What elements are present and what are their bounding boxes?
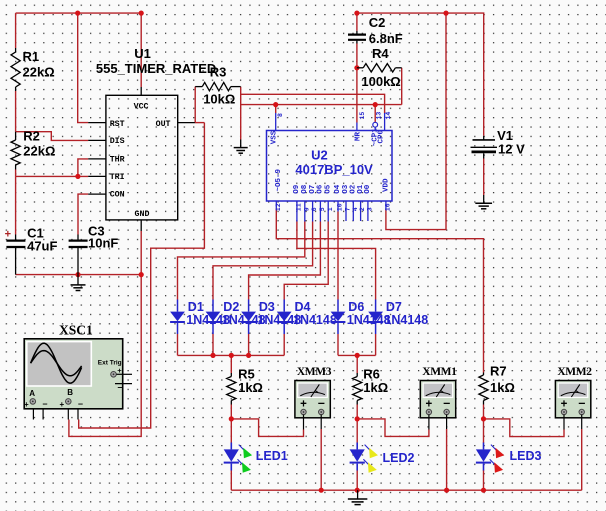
wire XMM3 - drop: [320, 429, 322, 490]
svg-text:555_TIMER_RATED: 555_TIMER_RATED: [96, 61, 216, 76]
svg-text:THR: THR: [110, 156, 125, 165]
wire XMM3 + link: [231, 419, 303, 437]
wire VCC drop: [140, 13, 142, 87]
svg-text:MR: MR: [354, 131, 362, 141]
resistor R4: [357, 64, 402, 72]
node C3-ground junction: [75, 272, 80, 277]
svg-text:3: 3: [367, 207, 374, 211]
svg-text:O4: O4: [334, 184, 342, 194]
wire LED1 to bottom bus: [230, 470, 232, 490]
svg-text:13: 13: [376, 112, 383, 120]
svg-text:O9: O9: [293, 184, 301, 194]
wire R4 right lead down: [401, 68, 403, 105]
svg-text:D2: D2: [223, 300, 239, 314]
svg-text:1kΩ: 1kΩ: [238, 380, 263, 395]
wire DIS jog: [16, 132, 89, 141]
oscilloscope XSC1: [24, 322, 132, 419]
LED LED1: [224, 443, 252, 473]
multimeter XMM1: [420, 366, 457, 418]
wire R7 to LED3: [483, 405, 485, 444]
svg-text:O0: O0: [364, 184, 372, 194]
svg-text:RST: RST: [110, 120, 125, 129]
svg-text:O6: O6: [317, 184, 325, 194]
svg-text:VCC: VCC: [134, 103, 149, 112]
svg-text:XSC1: XSC1: [59, 322, 93, 337]
svg-text:+: +: [5, 229, 11, 241]
svg-text:GND: GND: [135, 210, 150, 219]
wire R5 column: [230, 355, 232, 373]
node LED3 bus junction: [481, 488, 486, 493]
wire OUT node: [195, 122, 205, 124]
resistor R5: [227, 373, 236, 405]
svg-text:11: 11: [296, 203, 303, 211]
svg-text:~O5-9: ~O5-9: [275, 168, 283, 191]
wire top-left bus: [16, 12, 142, 14]
svg-text:22kΩ: 22kΩ: [23, 64, 55, 79]
svg-text:XMM2: XMM2: [557, 366, 592, 378]
op-amp U1 555 timer: [88, 87, 195, 231]
svg-text:1kΩ: 1kΩ: [363, 380, 388, 395]
ground bottom bus: [348, 490, 368, 504]
capacitor C1: [6, 235, 25, 275]
node THR-TRI junction: [75, 174, 80, 179]
wire R3 to CP0: [241, 94, 385, 113]
wire ground bus under 555: [16, 274, 142, 276]
wire O5 to D4: [284, 222, 328, 300]
node C2 top junction: [354, 11, 359, 16]
wire R3 right node column: [240, 87, 242, 140]
svg-text:–: –: [43, 399, 48, 409]
svg-text:2: 2: [359, 207, 366, 211]
svg-text:10: 10: [337, 203, 344, 211]
resistor R3: [195, 82, 241, 90]
svg-text:D1: D1: [188, 300, 204, 314]
node GND-bus junction: [139, 272, 144, 277]
wire 555 GND drop: [140, 231, 142, 275]
LED LED2: [350, 443, 378, 473]
svg-text:R4: R4: [372, 46, 389, 61]
diode D4: [277, 300, 292, 335]
svg-text:22kΩ: 22kΩ: [23, 144, 55, 159]
node R4-C2 junction: [354, 65, 359, 70]
svg-text:OUT: OUT: [156, 120, 171, 129]
svg-text:–: –: [443, 396, 450, 410]
svg-text:47uF: 47uF: [27, 238, 57, 253]
LED LED3: [476, 443, 504, 473]
svg-text:U1: U1: [134, 46, 151, 61]
svg-text:O8: O8: [301, 184, 309, 194]
wire C1 top column: [15, 176, 17, 234]
capacitor C2: [348, 31, 366, 44]
svg-text:8: 8: [277, 113, 284, 117]
svg-text:12: 12: [275, 203, 282, 211]
node R5-LED1 junction: [229, 416, 234, 421]
diode D2: [206, 300, 221, 335]
diode D1: [170, 300, 185, 335]
svg-text:+: +: [117, 366, 122, 375]
svg-text:–: –: [578, 396, 585, 410]
node D3 cathode junction: [246, 353, 251, 358]
node R5 top junction: [229, 353, 234, 358]
svg-text:LED1: LED1: [256, 449, 288, 463]
resistor R1: [11, 48, 20, 91]
svg-text:7: 7: [345, 207, 352, 211]
svg-text:CP0: CP0: [377, 129, 385, 143]
wire scope B+ to ground bus: [69, 275, 141, 437]
wire V1 to ground: [483, 159, 485, 196]
wire LED3 to bottom bus: [483, 470, 485, 490]
wire CP1 stub top: [374, 105, 376, 123]
svg-text:O7: O7: [309, 185, 317, 194]
svg-text:14: 14: [385, 112, 392, 120]
svg-text:1N4148: 1N4148: [293, 313, 337, 327]
wire CON to C3: [78, 194, 88, 234]
svg-text:+: +: [426, 398, 433, 410]
svg-text:D4: D4: [295, 300, 311, 314]
wire R2 bottom to TRI: [15, 170, 17, 177]
svg-text:+: +: [300, 398, 307, 410]
svg-text:R2: R2: [23, 128, 40, 143]
svg-text:C2: C2: [369, 15, 386, 30]
svg-text:15: 15: [359, 112, 366, 120]
ground under C3: [71, 275, 86, 291]
wire CO to R7: [276, 209, 483, 373]
wire R1 bottom to DIS-jog corner: [15, 91, 17, 132]
svg-text:A: A: [29, 389, 35, 398]
svg-text:R7: R7: [490, 363, 507, 378]
svg-text:CON: CON: [110, 191, 125, 200]
wire XMM1 - drop: [446, 429, 448, 490]
wire diode cathode bus right: [338, 354, 376, 356]
svg-text:B: B: [67, 388, 73, 397]
svg-text:+: +: [24, 400, 29, 409]
svg-text:VDD: VDD: [382, 178, 390, 192]
wire OUT to scope B-: [79, 123, 205, 428]
svg-text:6: 6: [311, 207, 318, 211]
svg-text:O5: O5: [324, 184, 332, 194]
node R6-LED2 junction: [355, 416, 360, 421]
svg-text:U2: U2: [311, 148, 328, 163]
diode D7: [368, 300, 383, 335]
wire O4 to D6: [337, 212, 339, 300]
svg-text:100kΩ: 100kΩ: [361, 74, 400, 89]
svg-text:DIS: DIS: [110, 137, 125, 146]
wire XMM2 + link: [484, 419, 565, 437]
diode D6: [331, 300, 346, 335]
svg-text:TRI: TRI: [110, 173, 125, 182]
wire O8 to D1: [178, 222, 305, 300]
wire XMM1 + link: [357, 419, 429, 437]
svg-text:R1: R1: [23, 49, 40, 64]
svg-text:D7: D7: [386, 300, 402, 314]
svg-text:+: +: [60, 400, 65, 409]
svg-text:–: –: [318, 396, 325, 410]
ground under R3 node: [234, 140, 248, 154]
wire R1 top column: [15, 13, 17, 48]
svg-text:9: 9: [303, 207, 310, 211]
resistor R2: [11, 132, 20, 170]
svg-text:4: 4: [352, 207, 359, 211]
svg-text:LED3: LED3: [510, 449, 542, 463]
svg-text:10kΩ: 10kΩ: [203, 92, 235, 107]
node RST-bus junction: [75, 11, 80, 16]
node VCC-bus junction: [139, 11, 144, 16]
svg-text:D3: D3: [259, 300, 275, 314]
capacitor C3: [69, 235, 88, 275]
resistor R6: [353, 373, 362, 405]
svg-text:+: +: [561, 398, 568, 410]
svg-text:–: –: [118, 382, 123, 392]
svg-text:16: 16: [385, 203, 392, 211]
svg-text:4017BP_10V: 4017BP_10V: [295, 162, 373, 177]
svg-text:1N4148: 1N4148: [384, 313, 428, 327]
svg-text:D6: D6: [348, 300, 364, 314]
counter U2 4017: [267, 112, 393, 222]
node R7-LED3 junction: [481, 416, 486, 421]
wire TRI horizontal: [16, 175, 89, 177]
svg-text:VSS: VSS: [270, 130, 278, 144]
svg-text:LED2: LED2: [383, 451, 415, 465]
wire R3/R4 lower horizontal: [241, 104, 402, 106]
node LED2-ground bus junction: [355, 488, 360, 493]
svg-text:1kΩ: 1kΩ: [490, 380, 515, 395]
svg-text:–: –: [78, 399, 83, 409]
svg-text:XMM1: XMM1: [422, 366, 457, 378]
wire diode cathode bus left: [178, 354, 285, 356]
battery V1: [471, 136, 498, 159]
svg-text:12 V: 12 V: [498, 142, 525, 157]
wire LED2 to bottom bus: [356, 470, 358, 490]
wire RST drop: [78, 13, 89, 123]
multimeter XMM3: [295, 366, 332, 418]
node D2 cathode junction: [210, 353, 215, 358]
diode D3: [241, 300, 256, 335]
wire XMM2 - drop: [581, 429, 583, 490]
wire VSS stub top: [275, 105, 277, 113]
node V1 top junction: [443, 11, 448, 16]
node CP1 junction: [373, 102, 378, 107]
wire O6 to D3: [249, 222, 321, 300]
node XMM3 bus junction: [319, 488, 324, 493]
node XMM1 bus junction: [444, 488, 449, 493]
resistor R7: [479, 373, 488, 405]
svg-text:5: 5: [319, 207, 326, 211]
svg-text:10nF: 10nF: [88, 236, 118, 251]
wire C2/MR column: [356, 13, 358, 31]
multimeter XMM2: [555, 366, 592, 418]
svg-text:6.8nF: 6.8nF: [369, 31, 403, 46]
ground under V1: [475, 195, 492, 209]
wire VDD loop: [386, 13, 446, 230]
node VSS junction: [273, 102, 278, 107]
wire R3 left drop: [194, 87, 196, 123]
svg-text:XMM3: XMM3: [297, 366, 332, 378]
node R6 top junction: [355, 353, 360, 358]
wire O9 to D7: [297, 222, 376, 300]
wire O7 to D2: [213, 222, 313, 300]
wire THR link: [78, 159, 88, 177]
wire R6 column: [356, 355, 358, 373]
wire bottom bus: [231, 489, 581, 491]
wire top-right bus: [357, 13, 484, 136]
svg-text:1: 1: [327, 207, 334, 211]
